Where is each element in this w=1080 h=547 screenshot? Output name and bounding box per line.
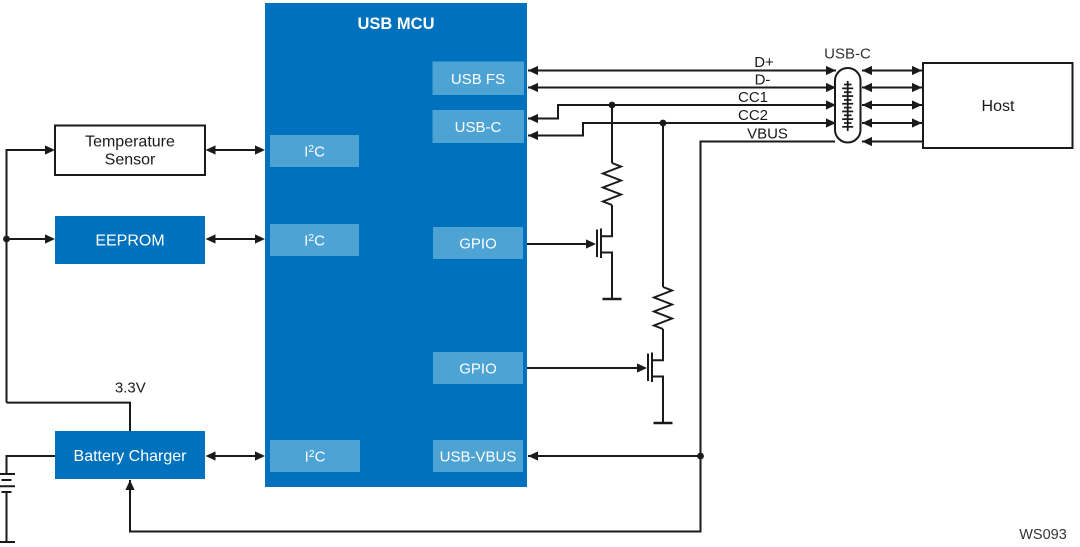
node VBUS junction: [697, 453, 704, 460]
wire connector to Host D-: [862, 87, 922, 89]
I2C block 2: [270, 224, 359, 256]
svg-text:WS093: WS093: [1019, 527, 1067, 543]
wire CC2 to resistor R2: [662, 123, 664, 287]
wire connector to Host CC2: [862, 122, 922, 124]
wire Temperature Sensor to I2C1: [213, 149, 257, 151]
svg-text:USB-C: USB-C: [824, 46, 871, 63]
svg-text:Host: Host: [982, 98, 1015, 115]
wire USB-VBUS branch into MCU: [528, 455, 701, 457]
svg-text:USB FS: USB FS: [451, 71, 505, 88]
Host block: [923, 63, 1073, 148]
svg-text:EEPROM: EEPROM: [95, 233, 164, 250]
wire D- MCU to connector: [528, 87, 836, 89]
node CC2 junction: [660, 120, 667, 127]
wire CC1 MCU to connector: [528, 105, 836, 119]
wire left rail to EEPROM: [7, 238, 48, 240]
svg-text:USB MCU: USB MCU: [358, 15, 435, 33]
svg-text:I2C: I2C: [305, 448, 326, 466]
USB-VBUS block: [433, 440, 523, 472]
wire Host to connector VBUS: [862, 141, 923, 143]
wire VBUS connector to MCU USB-VBUS: [130, 142, 835, 532]
GPIO block 1: [433, 227, 523, 259]
svg-text:USB-C: USB-C: [455, 119, 502, 136]
USB-C connector J1: [835, 68, 861, 143]
svg-text:Sensor: Sensor: [105, 152, 156, 169]
wire GPIO1 to gate of Q1: [527, 243, 588, 245]
wire CC1 to resistor R1: [611, 105, 613, 163]
wire D+ MCU to connector: [528, 70, 836, 72]
wire GPIO2 to gate of Q2: [527, 367, 639, 369]
svg-text:VBUS: VBUS: [747, 126, 788, 143]
resistor R1 with transistor Q1 and ground: [597, 163, 622, 299]
svg-text:CC2: CC2: [738, 107, 768, 124]
arrow into Battery Charger bottom: [125, 480, 134, 490]
wire connector to Host CC1: [862, 104, 922, 106]
wire Battery Charger to battery: [7, 456, 56, 473]
USB-C block: [433, 110, 525, 143]
Temperature Sensor block: [55, 126, 205, 176]
svg-text:D-: D-: [755, 72, 771, 89]
USB FS block: [433, 62, 525, 96]
node CC1 junction: [609, 102, 616, 109]
EEPROM block: [55, 216, 205, 264]
I2C block 1: [270, 135, 359, 167]
svg-text:GPIO: GPIO: [459, 236, 497, 253]
wire Battery Charger to I2C3: [213, 455, 257, 457]
wire connector to Host D+: [862, 70, 922, 72]
wire left rail from Temperature Sensor down: [7, 150, 48, 403]
resistor R2 with transistor Q2 and ground: [648, 287, 673, 423]
svg-text:D+: D+: [754, 54, 774, 71]
svg-text:Battery Charger: Battery Charger: [74, 448, 188, 465]
wire CC2 MCU to connector: [528, 123, 836, 136]
I2C block 3: [270, 440, 360, 472]
svg-text:GPIO: GPIO: [459, 361, 497, 378]
node left rail EEPROM junction: [3, 236, 10, 243]
wire 3.3V rail to Battery Charger: [7, 403, 131, 431]
svg-text:Temperature: Temperature: [85, 134, 175, 151]
GPIO block 2: [433, 352, 523, 384]
wire EEPROM to I2C2: [213, 238, 257, 240]
svg-text:USB-VBUS: USB-VBUS: [440, 449, 517, 466]
svg-text:I2C: I2C: [304, 143, 325, 161]
svg-text:I2C: I2C: [304, 232, 325, 250]
battery BT1: [0, 474, 15, 542]
svg-text:CC1: CC1: [738, 89, 768, 106]
svg-text:3.3V: 3.3V: [115, 379, 146, 396]
USB MCU block U1: [265, 3, 527, 487]
Battery Charger block: [55, 431, 205, 479]
